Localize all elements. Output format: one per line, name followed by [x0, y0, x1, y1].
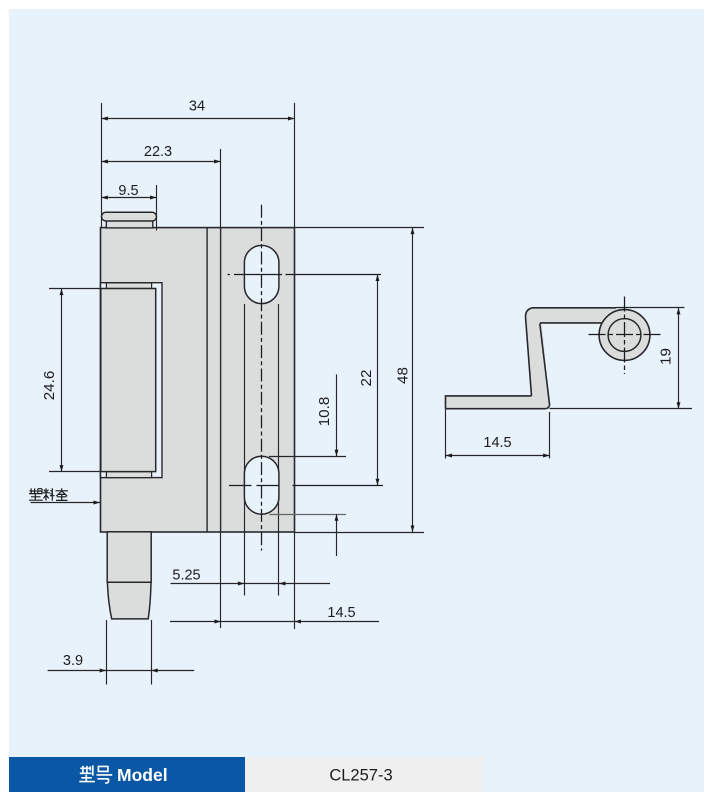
side view boss inner circle — [608, 319, 641, 352]
dim 19 ext top — [616, 307, 685, 309]
dim 9.5 line — [101, 197, 156, 199]
dim 10.8 ext bottom edge of bottom slot — [270, 514, 347, 516]
side view outline riser left and top edge — [526, 308, 616, 396]
side view outline bottom bar bottom — [446, 324, 550, 409]
door leaf — [101, 289, 156, 472]
fold line right — [220, 228, 222, 532]
top cap — [106, 221, 153, 228]
dim 3.9 line left — [48, 670, 107, 672]
side view riser top corner — [525, 308, 550, 409]
dim 22.3 ext right — [220, 149, 222, 228]
dim 5.25 line left — [171, 583, 245, 585]
boss crosshair vertical — [624, 297, 626, 375]
svg-text:Model: Model — [117, 765, 168, 785]
dim 22 line — [377, 275, 379, 486]
dim 48 line — [412, 228, 414, 532]
dim 34 line — [101, 118, 294, 120]
side dim 14.5 line — [446, 455, 550, 457]
dim 3.9 line right — [151, 670, 194, 672]
pin straight part — [107, 532, 151, 583]
plate right edge extension down — [294, 532, 296, 629]
dim 5.25 mid — [244, 583, 279, 585]
dim 34 ext right — [294, 103, 296, 228]
svg-text:5.25: 5.25 — [172, 568, 200, 584]
pin ext right — [151, 620, 153, 685]
side view top bar — [528, 308, 625, 323]
dim 5.25 line right — [279, 583, 330, 585]
dim 34 ext left — [101, 103, 103, 228]
dim 10.8 arrow top — [336, 374, 338, 456]
leaf pocket — [101, 283, 163, 478]
dim 10.8 ext top edge of bottom slot — [269, 456, 346, 458]
svg-text:22.3: 22.3 — [144, 144, 172, 160]
side view outline top bar bottom — [540, 322, 603, 324]
sleeve strip bottom — [106, 472, 151, 478]
dim 19 ext bottom — [550, 408, 692, 410]
svg-text:3.9: 3.9 — [63, 653, 83, 669]
top slot center line — [228, 274, 382, 276]
bottom slot center line — [229, 485, 383, 487]
table value cell gray — [245, 757, 483, 792]
label 塑料套 leader — [31, 502, 101, 504]
dim 24.6 line — [61, 289, 63, 472]
dim 24.6 ext bottom — [49, 471, 100, 473]
table label 型号 glyphs — [79, 765, 112, 783]
dim 9.5 ext right — [156, 185, 158, 231]
dim 14.5 mid — [221, 621, 295, 623]
svg-text:19: 19 — [658, 348, 675, 365]
svg-text:48: 48 — [395, 367, 412, 384]
table model cell blue — [9, 757, 245, 792]
svg-text:10.8: 10.8 — [316, 397, 333, 427]
dim 10.8 arrow bottom — [336, 514, 338, 556]
svg-text:CL257-3: CL257-3 — [329, 767, 392, 785]
side dim 14.5 ext right — [549, 412, 551, 459]
dim 24.6 ext top — [49, 288, 100, 290]
sleeve strip top — [106, 283, 151, 289]
svg-text:14.5: 14.5 — [327, 605, 355, 621]
svg-text:24.6: 24.6 — [41, 371, 58, 401]
svg-text:22: 22 — [358, 370, 375, 387]
dim 48 ext top — [295, 227, 424, 229]
pin tapered tip — [107, 582, 151, 619]
fold line extension down — [220, 532, 222, 628]
slot tangent extension line left — [244, 304, 246, 596]
side dim 14.5 ext left — [445, 409, 447, 459]
vertical center line — [261, 205, 263, 551]
svg-text:14.5: 14.5 — [483, 435, 511, 451]
hinge body plate — [101, 228, 295, 532]
side view riser — [525, 315, 550, 409]
fold line left — [206, 228, 208, 532]
dim 14.5 line left — [170, 621, 221, 623]
slot tangent extension line right — [278, 304, 280, 596]
dim 22.3 line — [101, 161, 220, 163]
bottom slot — [244, 456, 279, 514]
dim 14.5 line right — [295, 621, 380, 623]
svg-text:9.5: 9.5 — [118, 183, 138, 199]
dim 19 line — [678, 308, 680, 409]
side view boss outer circle — [599, 310, 650, 361]
dim 3.9 mid — [106, 670, 151, 672]
label 塑料套 glyphs — [29, 488, 68, 500]
side view outline bottom bar top — [446, 396, 532, 409]
boss crosshair horizontal — [589, 334, 663, 336]
side view bottom bar — [446, 396, 550, 409]
side view boss circle fill — [599, 310, 650, 361]
top slot — [244, 245, 279, 303]
dim 48 ext bottom — [295, 532, 424, 534]
pin ext left — [106, 620, 108, 685]
svg-text:34: 34 — [189, 99, 205, 115]
